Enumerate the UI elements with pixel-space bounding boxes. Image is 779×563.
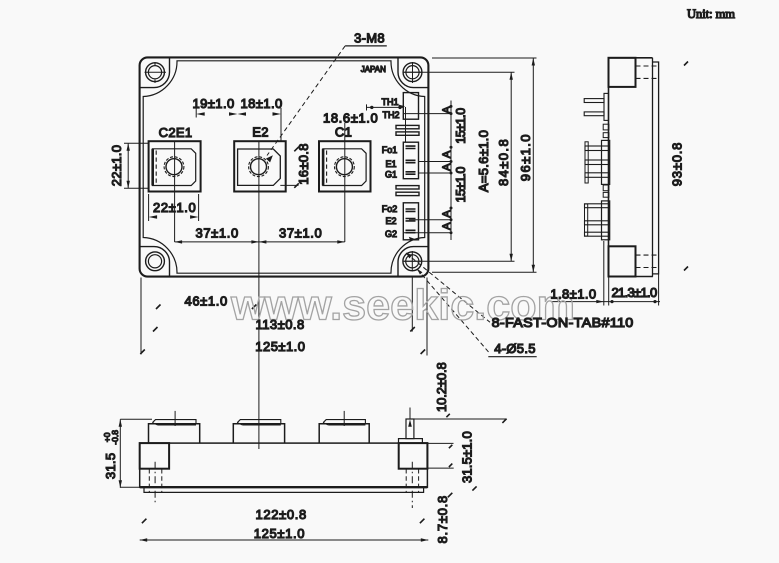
svg-text:-0.8: -0.8 (110, 430, 120, 445)
svg-text:93±0.8: 93±0.8 (669, 142, 684, 186)
dim A ladder line (450, 101, 452, 241)
arrow TH1 (399, 105, 406, 109)
side view small tab d (603, 192, 609, 197)
svg-text:Fo1: Fo1 (382, 145, 398, 155)
terminal E2 inner pad (238, 149, 281, 185)
terminal C1 square (319, 141, 371, 191)
arrows 125 bottom (140, 538, 148, 541)
ticks 113 (153, 327, 415, 332)
svg-text:18±1.0: 18±1.0 (241, 96, 283, 111)
A ladder ticks (450, 105, 453, 108)
ext module left edge down (140, 278, 142, 355)
svg-text:TH2: TH2 (382, 110, 399, 120)
side view TH holder (604, 93, 609, 120)
ticks 31.5 right (472, 419, 506, 491)
leader 4-dia5.5 (417, 269, 489, 353)
dim 19 extension (195, 108, 197, 118)
arrows 1.8 / 21.3 (596, 300, 604, 303)
svg-text:E2: E2 (252, 124, 269, 139)
dim 31.5 left extensions (120, 419, 152, 487)
pin extension lines right (404, 114, 451, 233)
bar lower 1 (396, 186, 419, 189)
svg-text:15±1.0: 15±1.0 (454, 108, 468, 144)
bottom view bump 1 center line (174, 411, 176, 426)
terminal C1 screw hole (335, 157, 355, 177)
bar upper 2 (396, 132, 419, 135)
svg-text:22±1.0: 22±1.0 (109, 145, 124, 186)
bottom view bump 2 body (233, 424, 284, 443)
svg-text:A: A (441, 210, 453, 218)
label 31.5 tol rotated (102, 430, 120, 479)
dim 125 bottom line (140, 539, 429, 541)
bottom view bump 3 body (319, 424, 369, 443)
ext body top right (428, 442, 454, 444)
svg-text:37±1.0: 37±1.0 (196, 226, 239, 241)
svg-text:31.5: 31.5 (103, 453, 118, 480)
bottom view bump 1 body (149, 424, 200, 443)
svg-text:3-M8: 3-M8 (354, 30, 385, 45)
side view top mounting ear (609, 58, 636, 87)
bottom view right ear hidden lines (406, 469, 418, 492)
svg-text:18.6±1.0: 18.6±1.0 (323, 110, 378, 125)
svg-text:8-FAST-ON-TAB#110: 8-FAST-ON-TAB#110 (492, 315, 634, 330)
arrows 22 left (127, 143, 130, 151)
bar lower 2 (396, 192, 419, 195)
side view low tab 3 (585, 232, 610, 236)
svg-text:1.8±1.0: 1.8±1.0 (550, 286, 596, 301)
bottom view left ear hidden lines (149, 469, 162, 492)
svg-text:15±1.0: 15±1.0 (454, 166, 468, 202)
dim 1.8 extensions (604, 241, 609, 306)
side view mid tab 2 (585, 160, 609, 165)
svg-text:TH1: TH1 (381, 97, 398, 107)
bottom view left ear (140, 443, 169, 469)
ticks 93 (684, 62, 688, 271)
bottom view left ear center line (154, 462, 156, 503)
top view outer case outline (140, 57, 429, 276)
svg-text:10.2±0.8: 10.2±0.8 (434, 362, 449, 412)
side view small tab a (603, 124, 609, 130)
svg-text:125±1.0: 125±1.0 (255, 339, 305, 354)
side view low tab frame (585, 204, 588, 236)
svg-text:C2E1: C2E1 (159, 125, 193, 140)
dim 18 extension at E2 corner (280, 108, 282, 141)
leader 8-FAST-ON-TAB (406, 253, 490, 322)
svg-text:A: A (441, 150, 453, 158)
bottom view right ear center line (411, 462, 413, 508)
dim 96 extensions (432, 58, 537, 272)
ext pin top right (415, 418, 507, 420)
dim 3-M8 leader (345, 45, 387, 47)
svg-text:E2: E2 (385, 216, 396, 226)
mounting ear boundary top-right (398, 57, 429, 87)
dim 22 bottom extensions (149, 194, 199, 221)
ticks 10.2 (446, 414, 452, 467)
terminal C2E1 center line (174, 141, 176, 242)
side view TH2 pin (584, 112, 604, 116)
svg-text:JAPAN: JAPAN (361, 65, 386, 74)
dim 84 line (510, 72, 512, 261)
terminal E2 center line (258, 141, 260, 449)
terminal C2E1 inner pad (153, 149, 196, 186)
ext E2 pad bottom (280, 184, 298, 186)
ext ear bottom right (428, 467, 454, 469)
mounting hole top-left (146, 63, 165, 82)
top view inner case outline (143, 61, 425, 273)
arrow pin top (408, 419, 412, 427)
svg-text:E1: E1 (385, 159, 396, 169)
bottom view fastening pin (406, 419, 414, 439)
ticks 125 mid (140, 350, 425, 355)
dim TH1 arrow line (399, 106, 406, 142)
svg-text:Fo2: Fo2 (382, 204, 398, 214)
terminal C2E1 square (149, 141, 201, 191)
arrow 3-M8 at E2 (266, 155, 273, 162)
terminal E2 screw hole (249, 157, 269, 177)
svg-text:113±0.8: 113±0.8 (256, 317, 305, 332)
svg-text:31.5±1.0: 31.5±1.0 (460, 431, 475, 483)
ext BR hole center down (411, 278, 413, 332)
arrows 84 (510, 72, 513, 80)
dim 1.8 and 21.3 line (551, 301, 660, 303)
ticks 8.7 (448, 493, 453, 498)
svg-text:4-Ø5.5: 4-Ø5.5 (494, 341, 536, 356)
side view mid tab block (602, 140, 610, 184)
side view mid tab 3 (585, 173, 609, 178)
dim 22 left line (127, 143, 129, 188)
svg-text:A: A (441, 163, 453, 171)
side view small tab b (603, 133, 609, 138)
bottom view pin center line (409, 408, 411, 420)
dim 37 line (175, 241, 345, 243)
arrows 37 (175, 240, 183, 243)
arrows 31.5 left (119, 419, 122, 427)
bottom view bump 1 cap (152, 420, 196, 425)
svg-text:G2: G2 (385, 229, 397, 239)
svg-text:Unit: mm: Unit: mm (687, 7, 735, 21)
side view bottom mounting ear (609, 246, 636, 276)
arrows 19/18 (196, 112, 205, 115)
svg-text:37±1.0: 37±1.0 (279, 226, 322, 241)
svg-text:21.3±1.0: 21.3±1.0 (612, 285, 658, 300)
svg-text:46±1.0: 46±1.0 (185, 293, 228, 308)
dim 18.6 line (367, 104, 404, 110)
svg-text:8.7±0.8: 8.7±0.8 (435, 496, 450, 544)
dim 96 line (532, 58, 534, 272)
terminal C2E1 hidden line (155, 151, 157, 185)
side view top hole hidden lines (636, 66, 659, 78)
mounting ear boundary bottom-left (140, 247, 170, 277)
signal block TH1 TH2 (403, 93, 418, 120)
mounting ear boundary bottom-right (398, 247, 429, 277)
bottom view baseplate strip (144, 487, 424, 492)
arrows 18.6 (370, 106, 373, 109)
svg-text:G1: G1 (385, 169, 397, 179)
tick 46 (156, 305, 256, 310)
mounting hole bottom-left (146, 252, 165, 271)
svg-text:84±0.8: 84±0.8 (496, 139, 511, 186)
dim 4-dia5.5 underline (488, 356, 536, 358)
bottom view body (140, 443, 428, 487)
dim 31.5 left line (119, 419, 121, 488)
bottom view bump 3 cap (323, 420, 365, 425)
side view mid tab 1 (585, 146, 609, 151)
arrows leaders at BR hole (406, 253, 412, 259)
svg-text:16±0.8: 16±0.8 (296, 143, 311, 184)
bottom view right ear (399, 443, 428, 469)
signal block Fo1 E1 G1 (403, 142, 418, 179)
svg-text:122±0.8: 122±0.8 (256, 507, 307, 522)
side view mid tab frame (585, 142, 588, 183)
dim 22 left extensions (124, 143, 148, 188)
svg-text:125±1.0: 125±1.0 (254, 526, 305, 541)
ticks 122 (142, 519, 425, 524)
side view TH1 pin (584, 99, 604, 103)
dim 84 extensions (404, 72, 515, 261)
svg-text:96±1.0: 96±1.0 (518, 134, 533, 181)
svg-text:19±1.0: 19±1.0 (193, 96, 235, 111)
mounting hole bottom-right (403, 252, 422, 271)
svg-text:A=5.6±1.0: A=5.6±1.0 (476, 130, 491, 192)
svg-text:22±1.0: 22±1.0 (153, 200, 196, 215)
ticks 16 (294, 147, 299, 188)
mounting ear boundary top-left (140, 57, 170, 87)
ext module right edge down (426, 278, 428, 356)
terminal C1 center line (344, 123, 346, 242)
bottom view pin plinth (399, 439, 423, 444)
bar upper 1 (396, 125, 419, 128)
dim 21.3 right extension (658, 275, 660, 306)
terminal E2 square (234, 141, 286, 191)
side view case body (609, 58, 653, 277)
mounting hole top-right (403, 63, 422, 82)
bottom view bump 2 cap (237, 420, 281, 425)
side view low tab block (602, 201, 610, 240)
arrows 96 (532, 58, 535, 66)
terminal C2E1 screw hole (164, 157, 184, 177)
arrows 22 bottom (149, 215, 158, 218)
terminal C1 inner pad (323, 149, 366, 186)
svg-text:C1: C1 (335, 125, 352, 140)
svg-text:A: A (441, 222, 453, 230)
side view small tab c (603, 185, 609, 191)
side view low tab 1 (585, 204, 610, 208)
svg-text:A: A (441, 106, 453, 114)
side view baseplate (653, 62, 659, 274)
terminal C1 hidden line (326, 151, 328, 185)
bottom view bump 3 center line (343, 411, 345, 426)
side view bottom hole hidden lines (636, 255, 659, 267)
side view low tab 2 (585, 221, 610, 225)
signal block Fo2 E2 G2 (403, 203, 418, 240)
